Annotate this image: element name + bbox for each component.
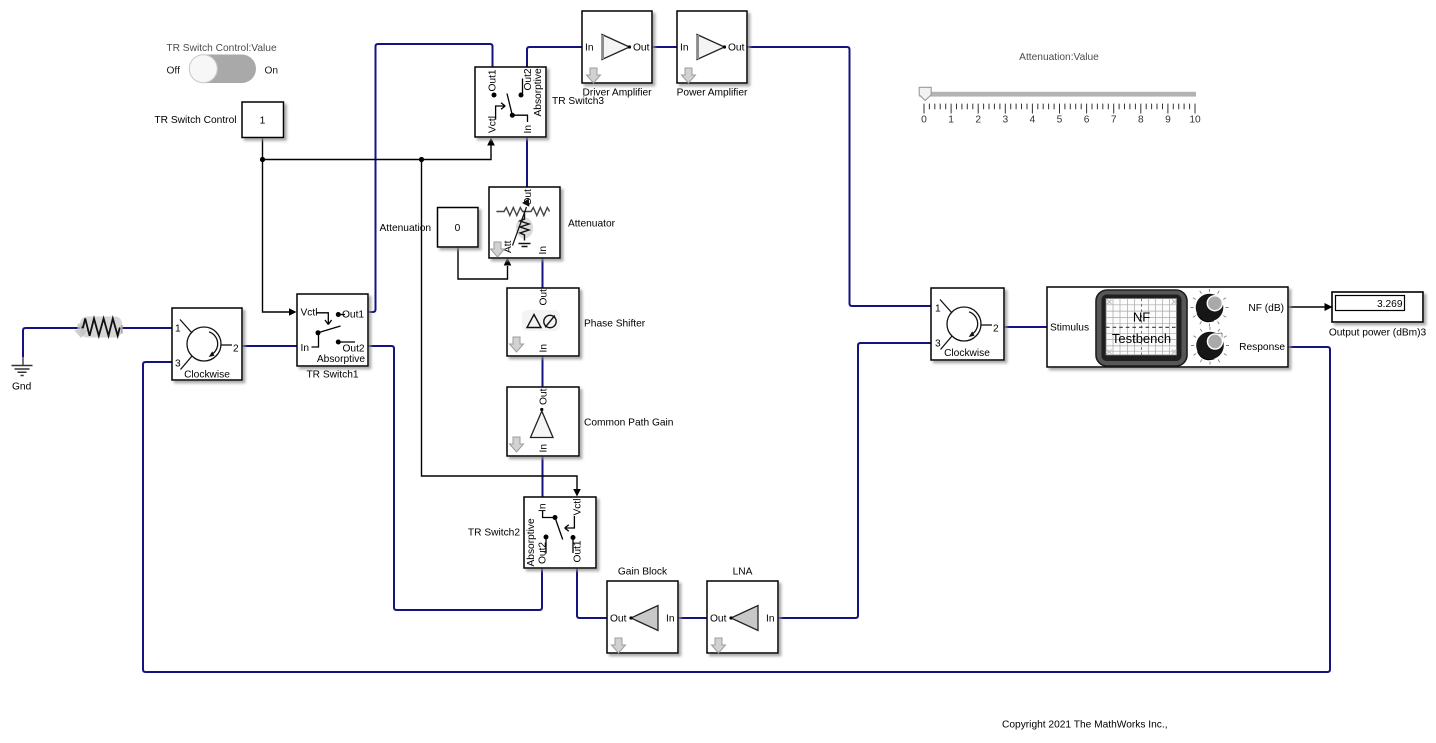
circulator1 port1 stroke <box>180 320 192 334</box>
Phase Shifter phi slash <box>545 316 555 328</box>
wire TR Switch2 Out1 to Gain Block Out <box>577 568 607 618</box>
Power Amplifier triangle <box>697 35 725 60</box>
NF Testbench screen corner marks <box>1107 300 1177 355</box>
svg-text:6: 6 <box>1084 115 1090 126</box>
svg-text:Driver Amplifier: Driver Amplifier <box>582 88 652 99</box>
TR Switch3 Out2 dot <box>519 93 524 98</box>
TR Switch2 body <box>524 497 596 568</box>
circulator2 port3 stroke <box>941 336 953 350</box>
TR Switch2 Out2 dot <box>544 535 549 540</box>
Gain Block triangle <box>631 606 658 631</box>
Phase Shifter body <box>507 288 579 356</box>
TR Switch1 Out1 dot <box>336 312 341 317</box>
svg-text:0: 0 <box>921 115 927 126</box>
svg-text:3.269: 3.269 <box>1377 299 1403 310</box>
svg-text:3: 3 <box>935 339 941 350</box>
svg-text:TR Switch2: TR Switch2 <box>468 528 520 539</box>
TR Switch2 Out2 stub <box>545 539 547 554</box>
toggle knob <box>189 55 217 83</box>
arrowhead into TR Switch2 Vctl <box>573 489 581 497</box>
TR Switch3 In line <box>515 115 528 122</box>
svg-text:In: In <box>666 614 675 625</box>
Power Amplifier triangle input bar <box>697 35 699 59</box>
svg-text:4: 4 <box>1030 115 1036 126</box>
NF Testbench knob1 <box>1191 289 1229 327</box>
TR Switch3 pole dot <box>510 113 515 118</box>
NF Testbench screen <box>1106 299 1177 356</box>
TR Switch2 In line <box>543 511 553 518</box>
Driver Amplifier apex dot <box>628 45 631 48</box>
arrowhead into TR Switch1 Vctl <box>289 308 297 315</box>
slider ruler numbers <box>921 115 1201 126</box>
TR Switch1 Out2 dot <box>336 340 341 345</box>
wire Constant Attenuation to Attenuator Att <box>458 247 508 279</box>
svg-text:1: 1 <box>935 304 941 315</box>
Power Amplifier apex dot <box>723 45 726 48</box>
circulator1 arc arrowhead <box>209 351 215 357</box>
svg-text:In: In <box>301 343 310 354</box>
svg-text:Out2: Out2 <box>343 344 365 355</box>
svg-text:In: In <box>523 125 534 134</box>
arrowhead into TR Switch3 Vctl <box>487 138 495 146</box>
NF Testbench screen frame <box>1096 290 1187 366</box>
Common Path Gain down arrow <box>510 437 524 452</box>
wire junction A right to TR Switch3 Vctl <box>263 144 492 160</box>
wire TR Switch1 Out1 to TR Switch3 Out1 <box>368 44 493 312</box>
svg-text:Gain Block: Gain Block <box>618 567 668 578</box>
svg-text:Att: Att <box>503 240 514 253</box>
wire junction A down to TR Switch1 Vctl <box>263 160 290 313</box>
Driver Amplifier triangle input bar <box>602 35 604 59</box>
svg-text:In: In <box>585 43 594 54</box>
constant Attenuation box <box>438 208 479 248</box>
wire LNA In to Circulator2 port 3 <box>778 343 931 618</box>
svg-text:1: 1 <box>175 324 181 335</box>
svg-text:2: 2 <box>993 324 999 335</box>
arrowhead into Output power display <box>1325 303 1333 311</box>
circulator2 port1 stroke <box>940 300 952 314</box>
svg-text:Gnd: Gnd <box>12 382 32 393</box>
wire NF Testbench Response to Circulator1 port 3 <box>143 347 1330 672</box>
svg-text:In: In <box>538 504 549 513</box>
toggle track <box>189 55 256 84</box>
svg-text:Vctl: Vctl <box>301 308 318 319</box>
TR Switch1 lever <box>318 326 341 333</box>
svg-text:Out: Out <box>539 289 550 306</box>
Phase Shifter phi symbol <box>544 315 556 327</box>
svg-text:In: In <box>538 246 549 255</box>
svg-text:Off: Off <box>167 66 181 77</box>
svg-text:Response: Response <box>1239 342 1285 353</box>
TR Switch3 Vctl arrow <box>496 103 506 120</box>
Phase Shifter icon background <box>522 310 560 331</box>
circulator1 port2 stroke <box>221 344 232 346</box>
svg-text:10: 10 <box>1189 115 1201 126</box>
LNA body <box>707 581 778 653</box>
resistor right tick <box>121 325 123 334</box>
svg-text:Absorptive: Absorptive <box>526 518 537 566</box>
svg-text:On: On <box>265 66 279 77</box>
svg-text:In: In <box>539 444 550 453</box>
circulator1 body <box>172 308 242 380</box>
Gain Block down arrow <box>612 638 626 653</box>
arrowhead into Attenuator Att <box>504 258 512 266</box>
svg-text:Out: Out <box>710 614 727 625</box>
svg-text:TR Switch Control:Value: TR Switch Control:Value <box>166 43 277 54</box>
TR Switch1 In line <box>312 315 356 348</box>
ground bars <box>12 366 33 376</box>
svg-text:Attenuator: Attenuator <box>568 219 616 230</box>
svg-text:In: In <box>680 43 689 54</box>
svg-text:Attenuation:Value: Attenuation:Value <box>1019 52 1099 63</box>
slider ruler ticks <box>924 104 1195 114</box>
svg-text:Clockwise: Clockwise <box>944 348 990 359</box>
Phase Shifter down arrow <box>510 337 524 352</box>
Common Path Gain body <box>507 387 579 456</box>
Gain Block apex dot <box>629 616 632 619</box>
wire NF Testbench NF (dB) to Output power display <box>1288 306 1325 308</box>
svg-text:Output power (dBm)3: Output power (dBm)3 <box>1329 328 1427 339</box>
NF Testbench body <box>1047 287 1288 367</box>
ground stub <box>22 357 24 365</box>
svg-text:NF (dB): NF (dB) <box>1248 303 1284 314</box>
svg-text:7: 7 <box>1111 115 1117 126</box>
wire Constant TR Switch Control down to junction A <box>262 138 264 160</box>
circulator1 circle <box>187 327 221 361</box>
TR Switch1 Vctl arrow <box>317 313 332 325</box>
svg-text:NF: NF <box>1133 310 1150 325</box>
svg-text:Power Amplifier: Power Amplifier <box>677 88 748 99</box>
svg-text:Phase Shifter: Phase Shifter <box>584 319 646 330</box>
Attenuator diagonal arrow <box>513 207 527 246</box>
svg-text:Vctl: Vctl <box>488 116 499 133</box>
svg-text:2: 2 <box>233 344 239 355</box>
svg-text:Absorptive: Absorptive <box>533 68 544 116</box>
svg-text:Absorptive: Absorptive <box>317 354 365 365</box>
TR Switch1 pole dot <box>316 330 321 335</box>
wire Gnd to Resistor R <box>23 328 82 357</box>
svg-text:Out: Out <box>728 43 745 54</box>
TR Switch3 Out2 stub <box>522 79 524 94</box>
wire Circulator1 port 2 to TR Switch1 In <box>242 345 297 347</box>
svg-text:Vctl: Vctl <box>573 499 584 516</box>
slider thumb <box>919 87 931 100</box>
wire Phase Shifter In to Common Path Gain Out <box>542 356 544 387</box>
wire TR Switch1 Out2 to TR Switch2 Out2 <box>368 346 542 610</box>
circulator2 body <box>931 288 1004 360</box>
svg-text:1: 1 <box>948 115 954 126</box>
TR Switch2 lever <box>555 518 563 540</box>
Attenuator body <box>489 187 560 258</box>
svg-text:Out1: Out1 <box>488 69 499 91</box>
svg-text:1: 1 <box>260 116 266 127</box>
wire TR Switch3 In to Attenuator Out <box>526 137 528 187</box>
circulator2 rotation arc <box>969 312 978 335</box>
svg-text:Out: Out <box>633 43 650 54</box>
LNA down arrow <box>712 638 726 653</box>
constant TR Switch Control box <box>242 102 284 138</box>
resistor zigzag <box>82 319 120 336</box>
svg-text:Out1: Out1 <box>342 310 364 321</box>
svg-text:Copyright 2021 The MathWorks I: Copyright 2021 The MathWorks Inc., <box>1002 720 1168 731</box>
svg-text:Out: Out <box>539 388 550 405</box>
LNA triangle <box>731 606 758 631</box>
svg-text:TR Switch Control: TR Switch Control <box>154 115 236 126</box>
Power Amplifier down arrow <box>682 68 696 83</box>
wire Driver Amplifier Out to Power Amplifier In <box>652 46 677 48</box>
LNA apex dot <box>729 616 732 619</box>
svg-text:8: 8 <box>1138 115 1144 126</box>
wire Attenuator In to Phase Shifter Out <box>542 258 544 288</box>
wire Gain Block In to LNA Out <box>678 617 707 619</box>
circulator2 arc arrowhead <box>969 331 975 337</box>
Attenuator down arrow <box>491 242 505 257</box>
svg-text:3: 3 <box>175 359 181 370</box>
junction B dot <box>419 157 424 162</box>
circulator2 circle <box>947 307 981 341</box>
circulator2 port2 stroke <box>981 324 992 326</box>
svg-text:Attenuation: Attenuation <box>380 223 432 234</box>
svg-text:3: 3 <box>1002 115 1008 126</box>
svg-text:TR Switch1: TR Switch1 <box>306 370 358 381</box>
TR Switch2 Out1 stub <box>572 540 574 554</box>
svg-text:5: 5 <box>1057 115 1063 126</box>
svg-text:Out: Out <box>610 614 627 625</box>
wire Resistor R to Circulator1 port 1 <box>120 327 172 329</box>
TR Switch2 pole dot <box>553 515 558 520</box>
wire Circulator2 port 2 to NF Testbench Stimulus <box>1004 326 1047 328</box>
wire TR Switch3 Out2 to Driver Amplifier In <box>527 47 582 67</box>
NF Testbench screen grid <box>1106 299 1177 356</box>
Driver Amplifier triangle <box>602 35 630 60</box>
circulator1 port3 stroke <box>181 356 193 370</box>
Attenuator shunt ground <box>519 244 531 247</box>
Phase Shifter delta symbol <box>527 315 541 328</box>
NF Testbench screen inner frame <box>1102 295 1182 362</box>
TR Switch2 Out1 dot <box>571 535 576 540</box>
Driver Amplifier down arrow <box>587 68 601 83</box>
svg-text:Stimulus: Stimulus <box>1050 323 1089 334</box>
resistor body background <box>80 317 122 338</box>
svg-text:In: In <box>539 344 550 353</box>
svg-text:9: 9 <box>1165 115 1171 126</box>
Attenuator shunt resistor <box>520 212 529 241</box>
display value frame <box>1336 296 1405 311</box>
TR Switch2 Vctl arrow <box>565 516 575 531</box>
svg-text:Out1: Out1 <box>573 540 584 562</box>
Gain Block body <box>607 581 678 653</box>
svg-text:2: 2 <box>975 115 981 126</box>
svg-text:Clockwise: Clockwise <box>184 370 230 381</box>
TR Switch3 body <box>475 67 546 137</box>
Driver Amplifier body <box>582 11 652 83</box>
TR Switch1 body <box>297 294 368 366</box>
faint overlay arrow on resistor <box>74 324 88 339</box>
Common Path Gain apex dot <box>540 408 543 411</box>
svg-text:Common Path Gain: Common Path Gain <box>584 418 673 429</box>
svg-text:Testbench: Testbench <box>1112 331 1171 346</box>
svg-text:LNA: LNA <box>733 567 753 578</box>
Attenuator shunt ellipse <box>516 218 533 239</box>
junction A dot <box>260 157 265 162</box>
TR Switch3 Out1 dot <box>492 93 497 98</box>
Attenuator horizontal resistor line <box>496 208 549 216</box>
Attenuator diagonal arrowhead <box>522 199 529 207</box>
wire junction B down to TR Switch2 Vctl <box>422 160 578 491</box>
wire Power Amplifier Out to Circulator2 port 1 <box>747 47 931 306</box>
NF Testbench knob2 <box>1191 327 1229 365</box>
wire Common Path Gain In to TR Switch2 In <box>542 456 544 497</box>
svg-text:In: In <box>766 614 775 625</box>
slider track <box>919 92 1196 97</box>
display body <box>1332 292 1423 322</box>
TR Switch3 lever <box>507 94 512 116</box>
svg-text:0: 0 <box>455 223 461 234</box>
Common Path Gain triangle <box>531 411 554 438</box>
circulator1 rotation arc <box>209 332 218 355</box>
Power Amplifier body <box>677 11 747 83</box>
NF Testbench screen dashed axes <box>1141 299 1143 356</box>
svg-text:Out2: Out2 <box>538 542 549 564</box>
